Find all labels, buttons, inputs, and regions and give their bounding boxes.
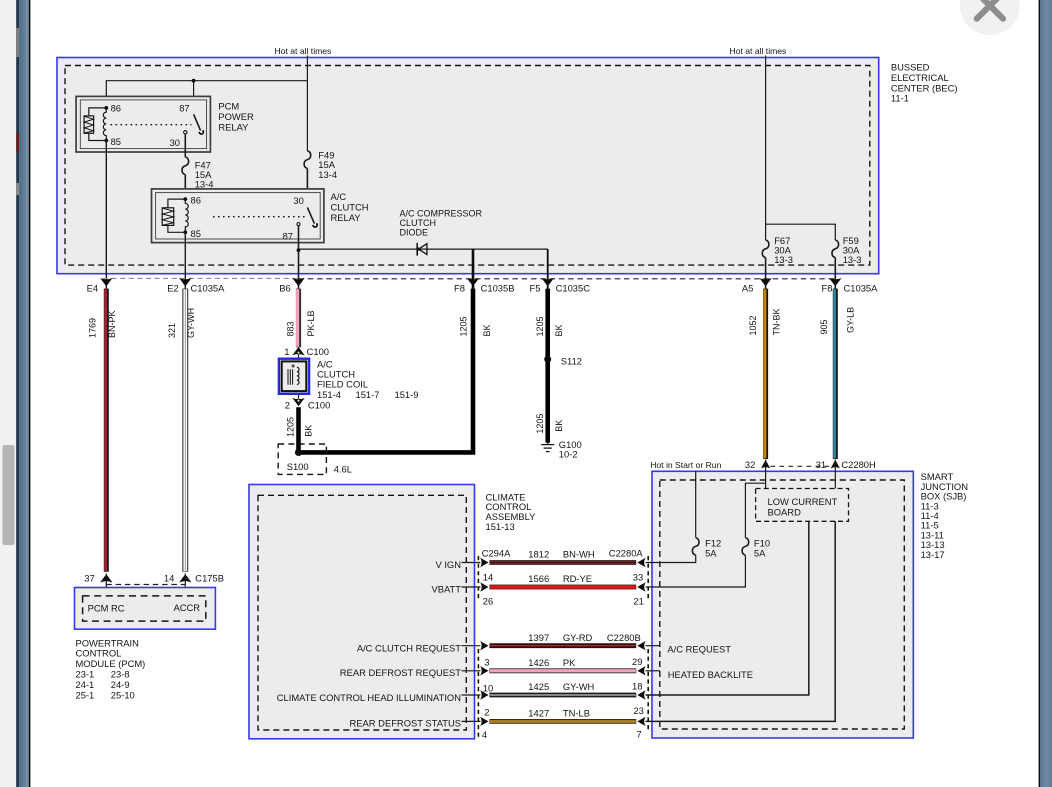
fuse F67 value label — [774, 235, 793, 265]
svg-text:1205: 1205 — [459, 316, 469, 336]
connector F8 C1035A arrow — [822, 278, 879, 294]
wire heated backlite stub — [646, 670, 660, 672]
connector pin 37 arrow (PCM) — [84, 573, 112, 584]
svg-text:1205: 1205 — [535, 414, 545, 434]
low current board dashed box — [756, 489, 849, 522]
svg-text:BOARD: BOARD — [768, 506, 802, 517]
svg-text:25-10: 25-10 — [111, 689, 135, 700]
PCM inner dashed border — [83, 596, 206, 621]
wire illumination to low current board — [646, 521, 809, 695]
svg-text:C2280H: C2280H — [841, 459, 875, 470]
row CLIMATE CONTROL HEAD ILLUMINATION pin arrows — [277, 690, 646, 717]
svg-text:87: 87 — [283, 231, 293, 242]
svg-text:B6: B6 — [279, 283, 290, 294]
svg-text:BK: BK — [482, 324, 492, 336]
svg-text:10: 10 — [483, 682, 493, 693]
wire A/C request stub — [646, 645, 660, 647]
wire 1812 BN-WH — [490, 549, 637, 563]
wire 1426 PK — [490, 657, 637, 671]
svg-text:10-2: 10-2 — [559, 449, 578, 460]
svg-text:24-1: 24-1 — [76, 679, 95, 690]
relay A/C pin 85 — [183, 228, 201, 239]
wire horizontal to F59 — [766, 224, 836, 240]
svg-text:18: 18 — [632, 681, 642, 692]
bussed electrical center (BEC) box — [57, 58, 879, 274]
CCA inner dashed border — [258, 495, 466, 730]
svg-text:Hot at all times: Hot at all times — [730, 46, 787, 56]
svg-text:C1035B: C1035B — [481, 283, 515, 294]
SJB inner dashed border — [660, 480, 905, 729]
svg-text:14: 14 — [483, 572, 493, 583]
svg-text:RELAY: RELAY — [218, 122, 249, 133]
BEC inner dashed border — [65, 66, 870, 266]
svg-text:1397: 1397 — [528, 632, 549, 643]
svg-text:151-7: 151-7 — [356, 389, 380, 400]
svg-text:1769: 1769 — [88, 318, 98, 338]
svg-text:C2280B: C2280B — [607, 632, 641, 643]
right black frame line — [1039, 0, 1041, 787]
svg-text:A/C COMPRESSOR: A/C COMPRESSOR — [400, 209, 483, 219]
wire pin30 to fuse F47 — [184, 134, 186, 157]
svg-text:A/C REQUEST: A/C REQUEST — [667, 643, 731, 654]
connector E2 C1035A arrow — [167, 278, 225, 294]
low current board label — [768, 496, 838, 517]
wire 1205 BK (F5 upper) — [545, 289, 550, 360]
wire drop to F8 C1035B — [472, 249, 475, 289]
wire PCM pin 85 to E4 — [105, 141, 107, 290]
svg-text:151-4: 151-4 — [317, 389, 341, 400]
PCM block label — [76, 637, 146, 700]
svg-text:PCM RC: PCM RC — [88, 603, 125, 614]
svg-text:5A: 5A — [705, 547, 717, 558]
ground G100 label — [559, 439, 582, 460]
row REAR DEFROST STATUS pin arrows — [350, 717, 646, 741]
svg-text:A5: A5 — [742, 283, 753, 294]
svg-text:905: 905 — [819, 319, 829, 334]
relay A/C dotted link — [213, 216, 306, 218]
wire stubs into PCM — [106, 574, 185, 597]
svg-text:CLUTCH: CLUTCH — [331, 202, 369, 213]
fuse F59 value label — [843, 235, 862, 265]
wire F10 to VBATT row — [646, 555, 746, 587]
svg-text:86: 86 — [191, 194, 201, 205]
svg-text:23-1: 23-1 — [76, 669, 95, 680]
svg-text:TN-BK: TN-BK — [771, 309, 781, 336]
diode A/C compressor clutch diode — [417, 243, 427, 256]
svg-text:26: 26 — [483, 596, 493, 607]
wire hot feed right vertical — [765, 56, 767, 225]
svg-text:POWER: POWER — [218, 111, 254, 122]
node junction diode branch — [297, 248, 301, 252]
svg-text:321: 321 — [167, 323, 177, 338]
svg-text:1: 1 — [284, 346, 289, 357]
svg-text:C1035A: C1035A — [191, 283, 226, 294]
fuse F47 — [182, 157, 189, 175]
relay A/C coil resistor box — [162, 199, 185, 232]
relay A/C label — [331, 191, 369, 223]
svg-text:1205: 1205 — [286, 417, 296, 437]
svg-text:C100: C100 — [307, 346, 329, 357]
wire diode branch horizontal — [299, 248, 548, 250]
wire 1205 BK (F5 lower) — [545, 359, 550, 442]
relay A/C switch blade — [307, 207, 317, 227]
relay PCM POWER RELAY box — [76, 96, 210, 152]
svg-text:V IGN: V IGN — [435, 559, 461, 570]
svg-text:151-13: 151-13 — [486, 521, 515, 532]
svg-text:POWERTRAIN: POWERTRAIN — [76, 637, 139, 648]
svg-text:BK: BK — [554, 324, 564, 336]
close button X icon — [977, 0, 1003, 19]
svg-text:25-1: 25-1 — [76, 689, 95, 700]
climate control assembly box — [249, 485, 475, 739]
svg-text:37: 37 — [84, 573, 94, 584]
left blue-gray strip — [19, 0, 29, 787]
svg-text:CLIMATE CONTROL HEAD ILLUMINAT: CLIMATE CONTROL HEAD ILLUMINATION — [277, 692, 461, 703]
svg-text:30: 30 — [293, 195, 303, 206]
fuse F49 value label — [318, 149, 337, 180]
svg-text:1812: 1812 — [528, 549, 549, 560]
relay PCM switch blade — [194, 114, 204, 134]
wire F59 to F8 — [834, 258, 836, 289]
svg-text:883: 883 — [285, 321, 295, 336]
svg-text:A/C: A/C — [331, 191, 347, 202]
wire 1397 GY-RD — [490, 632, 637, 646]
fuse F10 value label — [754, 538, 770, 559]
svg-text:14: 14 — [164, 573, 174, 584]
wire F12 to V IGN row — [646, 555, 696, 562]
wire 1769 BN-PK vertical — [103, 289, 109, 572]
svg-text:C2280A: C2280A — [609, 547, 644, 558]
connector A5 arrow — [742, 278, 772, 294]
wire F49 to A/C relay pin 30 — [306, 168, 308, 207]
svg-text:5A: 5A — [754, 547, 766, 558]
field coil plus mark — [291, 364, 295, 368]
svg-text:RELAY: RELAY — [331, 212, 362, 223]
CCA label — [486, 491, 537, 532]
svg-text:GY-RD: GY-RD — [563, 632, 593, 643]
left scrollbar thumb — [3, 445, 15, 545]
connector pin 32 arrow — [745, 459, 770, 470]
svg-text:F8: F8 — [822, 283, 833, 294]
connector E4 arrow — [87, 278, 113, 294]
wire 1052 TN-BK vertical — [762, 289, 768, 459]
powertrain control module box — [75, 588, 216, 630]
svg-text:DIODE: DIODE — [400, 228, 429, 238]
svg-text:CLUTCH: CLUTCH — [400, 218, 437, 228]
svg-text:RD-YE: RD-YE — [563, 573, 592, 584]
svg-text:C175B: C175B — [195, 573, 224, 584]
connector dashed line C1035 row (left gray) — [103, 277, 299, 279]
svg-text:S112: S112 — [561, 356, 582, 367]
connector C100 pin 1 arrow — [284, 346, 329, 357]
row REAR DEFROST REQUEST pin arrows — [340, 666, 646, 693]
svg-text:VBATT: VBATT — [431, 584, 461, 595]
wire riser to F67 — [765, 224, 767, 240]
wire F10 top branch to pin32 feed — [745, 483, 765, 537]
field coil label — [317, 359, 418, 400]
row V IGN pin arrows — [435, 558, 645, 583]
svg-text:31: 31 — [816, 459, 826, 470]
fuse F10 — [742, 538, 749, 556]
fuse F47 value label — [195, 160, 214, 190]
left black frame line — [29, 0, 31, 787]
svg-text:C100: C100 — [308, 399, 330, 410]
wire 1205 BK (F8 branch) — [299, 289, 474, 453]
smart junction box (SJB) — [652, 471, 913, 738]
wire A/C pin 87 down to B6 — [298, 226, 300, 289]
wire C100 pin1 to field coil — [298, 355, 300, 399]
splice S100 junction — [295, 449, 302, 456]
svg-text:23-8: 23-8 — [111, 669, 130, 680]
svg-text:1052: 1052 — [748, 315, 758, 335]
svg-text:1425: 1425 — [528, 681, 549, 692]
svg-text:C1035A: C1035A — [844, 283, 879, 294]
A/C clutch field coil box — [279, 359, 309, 394]
relay PCM pin 85 — [104, 136, 121, 147]
svg-text:PK-LB: PK-LB — [306, 310, 316, 336]
svg-text:BN-WH: BN-WH — [563, 549, 595, 560]
svg-text:GY-WH: GY-WH — [186, 308, 196, 338]
wire horizontal bus to PCM relay — [106, 81, 307, 108]
svg-text:30: 30 — [170, 137, 180, 148]
wire 1427 TN-LB — [490, 708, 637, 722]
relay PCM pin 30 contact — [170, 131, 187, 149]
svg-text:2: 2 — [285, 399, 290, 410]
svg-text:24-9: 24-9 — [111, 679, 130, 690]
svg-text:S100: S100 — [287, 461, 309, 472]
right blue-gray strip — [1040, 0, 1052, 787]
connector dashed line C1035 row (right) — [299, 278, 837, 280]
svg-text:F8: F8 — [454, 283, 465, 294]
svg-text:E4: E4 — [87, 283, 98, 294]
connector C2280 dashed line — [647, 556, 649, 730]
connector C294A dashed line — [477, 556, 479, 737]
BEC label text — [891, 62, 958, 104]
svg-text:REAR DEFROST STATUS: REAR DEFROST STATUS — [350, 718, 461, 729]
relay PCM pin 86 — [104, 103, 121, 114]
wire 905 GY-LB vertical — [832, 289, 838, 459]
relay A/C pin 87 contact — [283, 223, 301, 242]
connector F5 C1035C arrow — [530, 278, 591, 294]
svg-text:F5: F5 — [530, 283, 541, 294]
wire 883 PK-LB vertical — [295, 289, 301, 348]
svg-text:HEATED BACKLITE: HEATED BACKLITE — [668, 669, 753, 680]
svg-text:13-3: 13-3 — [843, 254, 862, 265]
connector C100 pin 2 arrow — [285, 398, 331, 411]
relay PCM coil winding — [103, 108, 106, 141]
svg-text:4: 4 — [482, 729, 487, 740]
svg-text:CONTROL: CONTROL — [76, 648, 122, 659]
field coil core lines — [288, 369, 293, 384]
wire F67 to A5 — [765, 258, 767, 289]
svg-text:GY-WH: GY-WH — [563, 681, 594, 692]
svg-text:BN-PK: BN-PK — [107, 310, 117, 338]
left window content edge segments — [16, 0, 19, 787]
svg-text:3: 3 — [484, 657, 489, 668]
fuse F12 value label — [705, 538, 721, 559]
svg-text:13-4: 13-4 — [195, 178, 214, 189]
svg-text:GY-LB: GY-LB — [845, 307, 855, 333]
svg-text:7: 7 — [637, 729, 642, 740]
svg-text:1426: 1426 — [528, 657, 549, 668]
relay PCM coil resistor box — [84, 108, 106, 141]
svg-text:1427: 1427 — [528, 708, 549, 719]
svg-text:11-1: 11-1 — [891, 93, 909, 104]
svg-text:87: 87 — [179, 103, 189, 114]
wire pin32 to low current board — [765, 460, 767, 489]
close button circle — [960, 0, 1020, 35]
svg-text:REAR DEFROST REQUEST: REAR DEFROST REQUEST — [340, 667, 461, 678]
field coil winding — [297, 367, 299, 384]
svg-text:13-4: 13-4 — [318, 169, 337, 180]
svg-text:1205: 1205 — [535, 316, 545, 336]
wire pin31 to low current board — [834, 460, 836, 489]
wire 1566 RD-YE — [490, 573, 637, 587]
svg-text:C1035C: C1035C — [556, 283, 591, 294]
svg-text:32: 32 — [745, 459, 755, 470]
left gutter background — [0, 0, 17, 787]
ground G100 symbol — [541, 440, 554, 452]
relay A/C CLUTCH RELAY box — [152, 189, 324, 243]
wire drop to F5 C1035C — [547, 249, 549, 289]
svg-text:33: 33 — [633, 572, 643, 583]
svg-text:ACCR: ACCR — [174, 602, 201, 613]
connector B6 arrow — [279, 278, 304, 294]
relay A/C coil winding — [185, 199, 188, 232]
row A/C CLUTCH REQUEST pin arrows — [357, 641, 646, 668]
svg-text:2: 2 — [484, 706, 489, 717]
wire 1205 BK coil to S100 — [296, 407, 301, 452]
svg-text:TN-LB: TN-LB — [563, 708, 590, 719]
connector dashed line C175B — [106, 584, 185, 586]
svg-text:85: 85 — [191, 228, 201, 239]
svg-text:CENTER (BEC): CENTER (BEC) — [891, 82, 958, 93]
svg-text:13-3: 13-3 — [774, 254, 793, 265]
wire 321 GY-WH vertical — [182, 289, 188, 572]
svg-text:ELECTRICAL: ELECTRICAL — [891, 72, 949, 83]
svg-text:85: 85 — [111, 136, 121, 147]
connector F8 C1035B arrow — [454, 278, 514, 294]
svg-text:A/C CLUTCH REQUEST: A/C CLUTCH REQUEST — [357, 643, 461, 654]
svg-text:Hot at all times: Hot at all times — [275, 46, 332, 56]
connector pin 31 C2280H arrow — [816, 459, 876, 470]
svg-text:MODULE (PCM): MODULE (PCM) — [76, 658, 146, 669]
svg-text:Hot in Start or Run: Hot in Start or Run — [650, 460, 721, 470]
svg-text:1566: 1566 — [528, 573, 549, 584]
diode label — [400, 209, 483, 238]
connector dashed line C2280H row — [771, 465, 833, 467]
wire to relay pin 87 — [193, 81, 195, 115]
fuse F59 — [832, 240, 839, 258]
svg-text:29: 29 — [632, 656, 642, 667]
svg-text:13-17: 13-17 — [921, 549, 945, 560]
wire defrost status to low current board — [646, 521, 836, 721]
svg-text:BK: BK — [554, 420, 564, 432]
relay PCM label — [218, 101, 254, 133]
wire hot feed left vertical — [306, 56, 308, 151]
relay PCM dotted link — [111, 124, 192, 126]
splice S112 — [544, 356, 582, 367]
splice S100 dashed box — [278, 444, 326, 474]
svg-text:86: 86 — [111, 103, 121, 114]
svg-text:23: 23 — [633, 705, 643, 716]
fuse F12 — [692, 538, 699, 556]
svg-text:BUSSED: BUSSED — [891, 62, 930, 73]
wire 1425 GY-WH — [490, 681, 637, 695]
wire F47 to A/C relay pin 86 — [184, 175, 186, 200]
svg-text:C294A: C294A — [482, 548, 511, 559]
svg-text:151-9: 151-9 — [395, 389, 419, 400]
node junction 87 branch — [192, 79, 196, 83]
svg-text:PCM: PCM — [218, 101, 239, 112]
wire hot in start feed down to F12 — [695, 471, 697, 538]
svg-text:21: 21 — [633, 596, 643, 607]
fuse F67 — [762, 240, 769, 258]
svg-text:PK: PK — [563, 657, 576, 668]
svg-text:4.6L: 4.6L — [334, 464, 352, 475]
SJB label — [921, 471, 968, 560]
svg-text:BK: BK — [304, 425, 314, 437]
connector pin 14 C175B arrow (PCM) — [164, 573, 224, 584]
fuse F49 — [304, 151, 311, 169]
svg-text:E2: E2 — [167, 283, 178, 294]
relay A/C pin 86 — [183, 194, 201, 205]
wire A/C pin 85 to E2 — [184, 232, 186, 289]
row VBATT pin arrows — [431, 582, 645, 606]
